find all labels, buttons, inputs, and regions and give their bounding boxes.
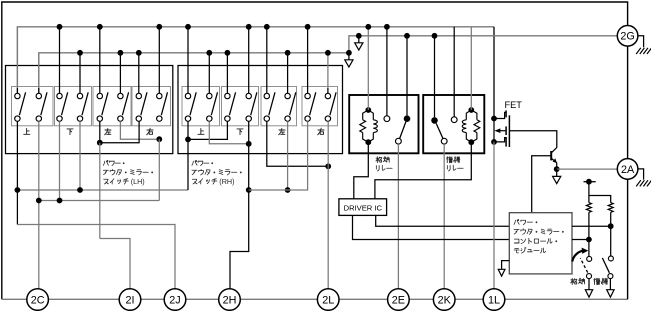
label power outer mirror switch (RH): [192, 160, 197, 165]
label 下 (LH): [67, 129, 73, 135]
connector 2C: [27, 289, 49, 311]
wire DRIVER IC out2 to module: [376, 215, 510, 226]
svg-text:(RH): (RH): [219, 177, 234, 186]
switch contact RH 下R: [248, 88, 250, 93]
connector 2G: [617, 26, 638, 47]
wire LH 左R-右R jog: [120, 121, 159, 139]
connector 2L: [317, 289, 339, 311]
relay 格納 coil feed / wire: [367, 27, 369, 110]
RH switch unit box 下: [222, 87, 259, 126]
wire LH 下L down: [59, 121, 61, 200]
FET body line / wire: [493, 119, 495, 142]
wire module to R2: [572, 225, 611, 227]
switch contact RH 左R: [287, 88, 289, 93]
label power outer mirror control module: [514, 220, 519, 225]
wire LH 上L down: [16, 121, 18, 224]
svg-text:2G: 2G: [620, 31, 634, 43]
label 下 (RH): [237, 129, 243, 135]
FET channel segments: [505, 110, 507, 117]
switch contact LH 下R: [79, 88, 81, 93]
wire feed x=266.8: [266, 27, 268, 88]
relay coil 格納: [365, 107, 371, 113]
wire LH 左L down: [99, 143, 101, 239]
LH switch unit box 右: [132, 87, 171, 126]
connector 2I: [119, 289, 141, 311]
svg-text:2H: 2H: [223, 294, 237, 306]
node rail B ground stub: [356, 33, 362, 39]
wire feed x=38.8: [38, 53, 40, 88]
rail A (mirror feed bus) / wire: [17, 27, 494, 94]
svg-text:2A: 2A: [621, 164, 635, 176]
svg-text:DRIVER IC: DRIVER IC: [344, 203, 383, 212]
LH switch unit box 左: [93, 87, 131, 126]
ground at 2A: [638, 169, 644, 180]
svg-text:2E: 2E: [392, 294, 405, 306]
power outer mirror switch (RH) block box: [178, 66, 343, 154]
wire feed x=307.6: [307, 27, 309, 88]
wire 復帰 SW to ground: [609, 279, 611, 290]
switch contact LH 上L: [16, 88, 18, 93]
switch 格納 (manual): [587, 256, 592, 261]
rail A end drop to FET / wire: [493, 27, 495, 119]
RH switch unit box 左: [261, 87, 297, 126]
resistor R2: [608, 203, 613, 213]
connector 2J: [164, 289, 186, 311]
wire feed x=138.8: [138, 53, 140, 88]
wire 復帰 coil to DRIVER IC: [375, 142, 471, 199]
wire W2 (to 2C net): [38, 200, 160, 202]
svg-text:2L: 2L: [322, 294, 334, 306]
wire LH 上R down to 2C: [38, 121, 40, 288]
wire module to R1: [572, 239, 589, 241]
label 復帰: [594, 278, 600, 284]
wire feed x=120.4: [119, 53, 121, 88]
label 左 (RH): [279, 128, 285, 134]
wire emitter to 2A: [557, 168, 618, 170]
switch contact LH 下L: [59, 88, 61, 93]
wire feed x=248.7: [248, 27, 250, 88]
connector 2A: [617, 159, 638, 180]
power tap T-bar node: [584, 181, 596, 183]
LH switch unit box 上: [12, 87, 54, 126]
wire feed x=209.3: [208, 53, 210, 88]
border right segment 2A-bottom / wire: [627, 179, 629, 299]
relay box 格納リレー: [349, 95, 418, 153]
relay 格納 NC contact: [404, 115, 411, 122]
svg-text:2I: 2I: [125, 294, 134, 306]
RH switch unit box 右: [302, 87, 338, 126]
wire RH 下R down to 2H: [230, 121, 249, 288]
relay 復帰 coil feed / wire: [470, 27, 472, 110]
switch contact RH 右R: [327, 88, 329, 93]
bottom connector rail / wire: [2, 298, 628, 300]
rail C (ground bus lower) / wire: [39, 53, 349, 94]
module ground stub: [502, 261, 510, 270]
wire RH 右R down to 2L: [327, 121, 329, 288]
control module box: [509, 213, 572, 274]
wire DRIVER IC out1 to module: [353, 215, 510, 239]
label 右 (LH): [147, 128, 153, 135]
wire FET source to 1L: [493, 142, 495, 289]
switch 復帰 (manual): [608, 256, 613, 261]
wire 格納 SW to ground: [588, 279, 590, 290]
node rail B-C junction: [346, 50, 352, 56]
svg-text:2K: 2K: [438, 294, 452, 306]
FET gate bar: [508, 115, 510, 147]
transistor Q1 emitter: [551, 158, 557, 162]
switch 格納 actuation arrow: [572, 251, 583, 262]
switch contact LH 右R: [158, 88, 160, 93]
relay 格納 common + blade: [396, 138, 402, 144]
wire W2' (RH net): [249, 121, 308, 190]
relay 復帰 NO contact: [451, 117, 457, 123]
transistor Q1 collector / wire: [551, 148, 557, 153]
switch contact RH 上L: [187, 88, 189, 93]
connector 2E: [388, 289, 410, 311]
wire tap down / branch: [588, 182, 590, 196]
label 右 (RH): [318, 128, 324, 135]
ground arrow below rail C junction: [348, 53, 350, 60]
transistor Q1 base bar: [550, 151, 552, 160]
wire feed x=227.4: [226, 53, 228, 88]
resistor R1: [586, 203, 591, 213]
wire feed x=159.3: [158, 27, 160, 88]
wire R2 down to 復帰 SW: [610, 212, 612, 256]
connector 1L: [483, 289, 505, 311]
wire W3 (to 2J): [17, 225, 175, 289]
switch contact LH 上R: [38, 88, 40, 93]
svg-text:(LH): (LH): [131, 177, 145, 186]
label 上 (LH): [24, 128, 30, 134]
svg-text:FET: FET: [505, 100, 523, 110]
switch contact RH 左L: [266, 88, 268, 93]
relay 復帰 common + blade: [441, 138, 447, 144]
wire feed x=327.9: [327, 53, 329, 88]
wire feed x=188.0: [187, 27, 189, 88]
switch contact RH 上R: [208, 88, 210, 93]
wire feed x=99.8: [99, 27, 101, 88]
switch contact RH 右L: [307, 88, 309, 93]
wire 2I jog: [100, 239, 130, 289]
RH switch unit box 上: [182, 87, 220, 126]
relay coil 復帰: [468, 107, 474, 113]
wire RH 上R-下R jog: [209, 121, 248, 144]
label 上 (RH): [198, 128, 204, 134]
wire RH 左R down: [287, 121, 289, 190]
wire R1 down to 格納 SW: [588, 212, 590, 256]
label 格納リレー: [376, 157, 382, 163]
power outer mirror switch (LH) block box: [6, 66, 173, 154]
connector 2H: [219, 289, 241, 311]
wire LH 下R down: [79, 121, 81, 190]
switch contact LH 右L: [138, 88, 140, 93]
svg-text:2C: 2C: [31, 294, 45, 306]
DRIVER IC box: [339, 199, 387, 216]
wire RH 上L down: [187, 139, 189, 190]
wire feed x=80.0: [79, 53, 81, 88]
ground at 2G: [638, 36, 644, 47]
switch contact RH 下L: [226, 88, 228, 93]
wire LH 左L-右L jog: [99, 121, 101, 142]
wire RH 上L-下L jog: [187, 121, 189, 139]
wire feed x=59.5: [59, 27, 61, 88]
relay box 復帰リレー: [423, 95, 484, 153]
wire feed x=287.6: [287, 53, 289, 88]
connector 2K: [433, 289, 455, 311]
FET body arrow: [498, 130, 506, 132]
border right segment 2G-2A / wire: [627, 46, 629, 158]
label power outer mirror switch (LH): [103, 160, 108, 165]
relay 格納 NO contact: [384, 116, 390, 122]
FET drain tap / wire: [494, 112, 506, 118]
wire feed x=17.4: [16, 27, 18, 88]
FET source tap / wire: [494, 138, 506, 142]
switch contact LH 左R: [119, 88, 121, 93]
LH switch unit box 下: [55, 87, 92, 126]
label 復帰リレー: [447, 157, 453, 163]
wire W1 (LH net to RH): [17, 189, 188, 191]
wire 格納 coil to DRIVER IC: [354, 142, 369, 199]
svg-text:2J: 2J: [169, 294, 180, 306]
svg-text:1L: 1L: [488, 294, 500, 306]
wire LH 右R down: [158, 139, 160, 200]
relay 復帰 NC contact: [431, 117, 438, 124]
ground arrow at emitter: [556, 169, 558, 176]
rail B (ground bus to 2G) / wire: [349, 36, 617, 53]
label 格納: [571, 278, 577, 284]
ground arrow on rail B stub: [358, 36, 360, 43]
transistor Q1 base wire: [532, 156, 552, 213]
wire RH 左L to 右R: [267, 121, 328, 166]
FET gate wire to transistor: [509, 131, 556, 148]
switch contact LH 左L: [99, 88, 101, 93]
label 左 (LH): [105, 128, 111, 134]
